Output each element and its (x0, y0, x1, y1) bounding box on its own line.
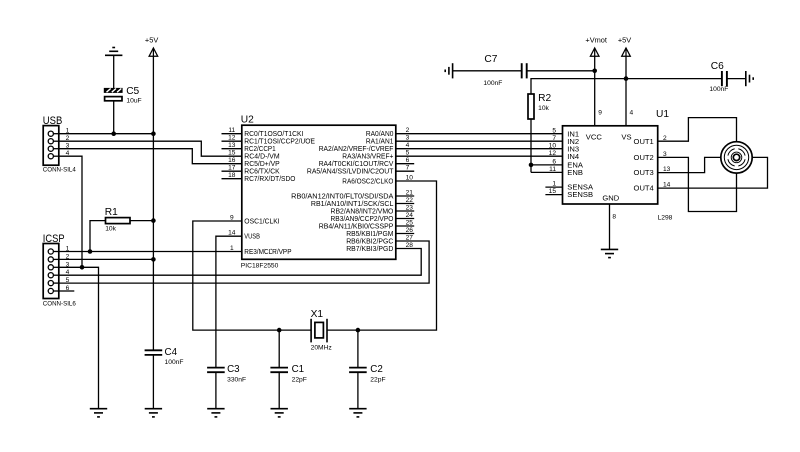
wire C7 to +Vmot rail (527, 70, 595, 72)
svg-text:5: 5 (552, 127, 556, 134)
svg-text:25: 25 (406, 219, 414, 226)
svg-text:IN4: IN4 (567, 152, 579, 161)
svg-text:100nF: 100nF (483, 80, 502, 87)
junction (C1 / X1 left net) (277, 328, 282, 333)
svg-text:RC7/RX/DT/SDO: RC7/RX/DT/SDO (244, 176, 296, 183)
junction (C7 / +Vmot) (592, 69, 597, 74)
svg-text:C2: C2 (370, 364, 383, 375)
ground (C6, rotated right) (746, 71, 753, 86)
wire OUT1 to motor top (658, 118, 737, 142)
svg-text:RA6/OSC2/CLKO: RA6/OSC2/CLKO (342, 178, 394, 185)
svg-text:SENSB: SENSB (567, 190, 593, 199)
pin 16 U2 (RC5/D+/VP) (228, 157, 280, 168)
wire RA0 to IN1 (396, 133, 563, 135)
svg-text:12: 12 (549, 150, 557, 157)
svg-text:18: 18 (228, 172, 236, 179)
crystal X1 (20MHz) (311, 319, 327, 343)
svg-text:RC4/D-/VM: RC4/D-/VM (244, 154, 280, 161)
junction (+5V / ICSP pin2) (151, 257, 156, 262)
pin 1 U1 (SENSA) (545, 181, 594, 192)
wire (C4 to ground) (152, 355, 154, 409)
svg-text:22pF: 22pF (292, 376, 307, 383)
ground (C3) (207, 409, 224, 417)
wire (ground to C5 top plate) (113, 55, 115, 88)
pin 6 U1 (ENA) (552, 159, 584, 170)
wire C3 to ground (215, 372, 217, 409)
svg-text:RB6/KBI2/PGC: RB6/KBI2/PGC (346, 238, 393, 245)
svg-text:GND: GND (602, 193, 619, 202)
junction (USB gnd / ICSP pin3) (80, 265, 85, 270)
junction (+5V / USB pin1) (151, 131, 156, 136)
capacitor C7 (100nF) (522, 63, 527, 78)
svg-text:U1: U1 (656, 109, 669, 120)
svg-text:7: 7 (552, 135, 556, 142)
wire C6 to ground (727, 78, 746, 80)
svg-text:RC0/T1OSO/T1CKI: RC0/T1OSO/T1CKI (244, 131, 303, 138)
wire OUT2 to motor bottom (658, 157, 737, 211)
svg-text:CONN-SIL6: CONN-SIL6 (43, 300, 77, 307)
svg-text:VCC: VCC (586, 133, 603, 142)
svg-text:RC6/TX/CK: RC6/TX/CK (244, 169, 280, 176)
svg-text:100nF: 100nF (709, 86, 728, 93)
svg-text:C3: C3 (227, 364, 240, 375)
pin 11 U1 (ENB) (549, 166, 583, 177)
svg-text:RA0/AN0: RA0/AN0 (366, 131, 394, 138)
pin 17 U2 (RC6/TX/CK) (222, 165, 280, 176)
junction (C5 / +5V rail) (111, 131, 116, 136)
svg-text:OSC1/CLKI: OSC1/CLKI (244, 218, 279, 225)
svg-text:+5V: +5V (145, 35, 158, 44)
wire ICSP pin5 (PGC) to U2 RB6 (59, 241, 429, 283)
wire L298 GND (pin 8) to ground (609, 204, 611, 249)
ground (ICSP pin3) (90, 409, 107, 417)
pin 14 U1 (OUT4) (634, 182, 671, 193)
pin 18 U2 (RC7/RX/DT/SDO) (222, 172, 296, 183)
pin 5 U1 (IN1) (552, 127, 579, 138)
svg-text:22: 22 (406, 197, 414, 204)
pin 3 U2 (RA1/AN1) (366, 135, 410, 146)
pin 26 U2 (RB5/KBI1/PGM) (346, 227, 414, 238)
wire +5V to L298 VS (pin 4) (625, 56, 627, 126)
svg-text:C1: C1 (292, 364, 305, 375)
pin 7 U2 (RA5/AN4/SS/LVDIN/C2OUT) (307, 165, 414, 176)
svg-text:X1: X1 (311, 309, 324, 320)
pin 12 U1 (IN4) (549, 150, 579, 161)
resistor R1 (10k) (106, 218, 131, 224)
svg-text:11: 11 (549, 166, 556, 173)
svg-text:8: 8 (612, 214, 616, 221)
svg-text:RB1/AN10/INT1/SCK/SCL: RB1/AN10/INT1/SCK/SCL (311, 201, 394, 208)
pin 2 U2 (RA0/AN0) (366, 127, 410, 138)
svg-text:4: 4 (630, 109, 634, 116)
pin 3 U1 (OUT2) (634, 151, 667, 162)
pin 12 U2 (RC1/T1OSI/CCP2/UOE) (222, 135, 316, 146)
svg-text:9: 9 (598, 109, 602, 116)
svg-text:13: 13 (228, 142, 236, 149)
wire C1 to ground (278, 372, 280, 409)
wire ICSP pin1 to U2 MCLR (59, 251, 242, 253)
svg-text:OUT1: OUT1 (634, 137, 654, 146)
wire (C5 bottom to USB pin1 rail) (113, 101, 115, 134)
microcontroller U2 (PIC18F2550) (242, 125, 396, 259)
capacitor C6 (100nF) (722, 71, 727, 86)
pin 23 U2 (RB2/AN8/INT2/VMO) (331, 204, 415, 215)
svg-text:PIC18F2550: PIC18F2550 (241, 262, 279, 269)
svg-text:C6: C6 (711, 61, 724, 72)
pin 28 U2 (RB7/KBI3/PGD) (346, 242, 413, 253)
wire USB pin1 to +5V rail (59, 133, 154, 135)
pin 24 U2 (RB3/AN9/CCP2/VPO) (331, 212, 415, 223)
svg-text:RA5/AN4/SS/LVDIN/C2OUT: RA5/AN4/SS/LVDIN/C2OUT (307, 169, 394, 176)
connector USB (CONN-SIL4) (43, 126, 59, 166)
wire R2 bottom to ENA/ENB (530, 119, 532, 172)
svg-text:ENB: ENB (567, 168, 583, 177)
svg-text:C7: C7 (484, 54, 497, 65)
motor driver U1 box (563, 126, 658, 204)
ground (C1) (271, 409, 288, 417)
svg-text:RB5/KBI1/PGM: RB5/KBI1/PGM (346, 231, 393, 238)
svg-text:6: 6 (552, 159, 556, 166)
wire X1 right to U2 OSC2 (327, 181, 437, 330)
wire R1 left lead down to ICSP pin1 (90, 221, 106, 252)
junction (C2 / X1 right net) (356, 328, 361, 333)
svg-text:OUT4: OUT4 (634, 184, 654, 193)
svg-text:RE3/MCLR/VPP: RE3/MCLR/VPP (244, 249, 291, 256)
pin 22 U2 (RB1/AN10/INT1/SCK/SCL) (311, 197, 414, 208)
svg-text:16: 16 (228, 157, 236, 164)
wire RA2 to IN3 (396, 148, 563, 150)
svg-text:RB4/AN11/KBI0/CSSPP: RB4/AN11/KBI0/CSSPP (319, 223, 394, 230)
svg-text:+Vmot: +Vmot (585, 35, 607, 44)
svg-text:100nF: 100nF (165, 359, 184, 366)
svg-text:11: 11 (228, 127, 235, 134)
svg-text:15: 15 (549, 188, 557, 195)
svg-text:10k: 10k (105, 225, 116, 232)
pin 15 U1 (SENSB) (545, 188, 593, 199)
junction (R1 / ICSP pin1) (88, 249, 93, 254)
wire C2 to ground (357, 372, 359, 409)
wire USB pin3 (D+) to U2 RC5 (59, 149, 242, 164)
pin 11 U2 (RC0/T1OSO/T1CKI) (222, 127, 304, 138)
svg-text:RB7/KBI3/PGD: RB7/KBI3/PGD (346, 246, 393, 253)
wire ground to C7 (453, 70, 522, 72)
resistor R2 (10k) (528, 94, 534, 119)
pin 13 U1 (OUT3) (634, 166, 671, 177)
svg-text:RC5/D+/VP: RC5/D+/VP (244, 161, 280, 168)
wire ICSP pin2 to +5V rail (59, 258, 154, 260)
pin 15 U2 (RC4/D-/VM) (228, 150, 280, 161)
wire to ENB (531, 171, 563, 173)
svg-text:R2: R2 (538, 93, 551, 104)
svg-text:10uF: 10uF (126, 98, 141, 105)
junction (+5V / C6 rail) (624, 76, 629, 81)
junction (+5V / R1) (151, 218, 156, 223)
wire U2 VUSB down to C3 (216, 236, 242, 367)
pin 14 U2 (VUSB) (228, 230, 260, 241)
pin 5 U2 (RA3/AN3/VREF+) (342, 150, 409, 161)
svg-text:12: 12 (228, 135, 236, 142)
svg-text:C4: C4 (165, 347, 178, 358)
wire R2 top to +5V rail and C6 (531, 79, 722, 94)
svg-text:10k: 10k (538, 105, 549, 112)
connector ICSP (CONN-SIL6) (43, 244, 59, 299)
pin 7 U1 (IN2) (552, 135, 579, 146)
svg-text:330nF: 330nF (227, 376, 246, 383)
svg-text:RA4/T0CKI/C1OUT/RCV: RA4/T0CKI/C1OUT/RCV (319, 161, 394, 168)
svg-text:10: 10 (406, 174, 414, 181)
wire RA1 to IN2 (396, 140, 563, 142)
svg-text:9: 9 (230, 214, 234, 221)
pin 13 U2 (RC2/CCP1) (222, 142, 276, 153)
power symbol +5V (L298) (618, 35, 631, 56)
svg-text:24: 24 (406, 212, 414, 219)
svg-text:17: 17 (228, 165, 236, 172)
svg-text:7: 7 (406, 165, 410, 172)
svg-text:ICSP: ICSP (43, 233, 65, 245)
svg-text:RB2/AN8/INT2/VMO: RB2/AN8/INT2/VMO (331, 208, 394, 215)
svg-text:RB0/AN12/INT0/FLT0/SDI/SDA: RB0/AN12/INT0/FLT0/SDI/SDA (291, 193, 394, 200)
svg-text:20MHz: 20MHz (311, 344, 333, 351)
power symbol +5V (145, 35, 158, 56)
svg-text:U2: U2 (241, 114, 254, 125)
pin 6 U2 (RA4/T0CKI/C1OUT/RCV) (319, 157, 415, 168)
svg-text:1: 1 (230, 245, 234, 252)
ground (C7, rotated left) (445, 63, 452, 78)
pin 27 U2 (RB6/KBI2/PGC) (346, 234, 413, 245)
ground (C2) (349, 409, 366, 417)
svg-text:1: 1 (552, 181, 556, 188)
svg-text:RA1/AN1: RA1/AN1 (366, 139, 394, 146)
svg-text:R1: R1 (105, 207, 118, 218)
wire +5V vertical rail (152, 56, 154, 350)
svg-text:RC1/T1OSI/CCP2/UOE: RC1/T1OSI/CCP2/UOE (244, 139, 315, 146)
wire OUT3 to motor left (658, 157, 721, 172)
svg-text:VS: VS (621, 133, 631, 142)
svg-text:RB3/AN9/CCP2/VPO: RB3/AN9/CCP2/VPO (331, 216, 394, 223)
svg-text:RC2/CCP1: RC2/CCP1 (244, 146, 275, 153)
wire USB pin2 (D-) to U2 RC4 (59, 141, 242, 156)
motor M1 (stepper) (721, 142, 752, 173)
svg-text:OUT3: OUT3 (634, 168, 654, 177)
wire USB pin4 (GND) down to ICSP pin3 net (59, 156, 82, 267)
junction (R2 / ENA) (529, 163, 534, 168)
capacitor C3 (330nF) (207, 368, 225, 373)
svg-text:6: 6 (406, 157, 410, 164)
ground (below C4) (145, 409, 162, 417)
pin 1 U2 (RE3/MCLR/VPP) (230, 245, 292, 256)
wire OUT4 to motor right (658, 157, 768, 188)
svg-text:RA2/AN2/VREF-/CVREF: RA2/AN2/VREF-/CVREF (319, 146, 394, 153)
svg-text:OUT2: OUT2 (634, 153, 654, 162)
svg-text:21: 21 (406, 189, 414, 196)
power symbol +Vmot (585, 35, 607, 56)
wire RA3 to IN4 (396, 155, 563, 157)
pin 4 U2 (RA2/AN2/VREF-/CVREF) (319, 142, 410, 153)
svg-text:L298: L298 (658, 215, 673, 222)
svg-text:26: 26 (406, 227, 414, 234)
svg-text:22pF: 22pF (370, 376, 385, 383)
wire R1 right lead to +5V rail (130, 220, 153, 222)
pin 21 U2 (RB0/AN12/INT0/FLT0/SDI/SDA) (291, 189, 414, 200)
wire ICSP pin4 (PGD) to U2 RB7 (59, 249, 421, 276)
capacitor C1 (22pF) (278, 330, 280, 368)
svg-text:USB: USB (43, 115, 63, 127)
pin 25 U2 (RB4/AN11/KBI0/CSSPP) (319, 219, 415, 230)
wire to ENA (531, 164, 563, 166)
svg-text:+5V: +5V (618, 35, 631, 44)
ground (inverted, top of C5) (105, 48, 122, 56)
wire ICSP pin6 stub (59, 290, 75, 292)
wire U2 OSC1 down to X1 left (193, 221, 311, 330)
svg-text:15: 15 (228, 150, 236, 157)
pin 9 U2 (OSC1/CLKI) (230, 214, 280, 225)
wire ICSP pin3 to ground (59, 267, 99, 408)
svg-text:RA3/AN3/VREF+: RA3/AN3/VREF+ (342, 154, 393, 161)
svg-text:10: 10 (549, 142, 557, 149)
svg-text:23: 23 (406, 204, 414, 211)
pin 2 U1 (OUT1) (634, 135, 667, 146)
svg-text:27: 27 (406, 234, 414, 241)
svg-text:28: 28 (406, 242, 414, 249)
svg-text:CONN-SIL4: CONN-SIL4 (43, 167, 77, 174)
wire +Vmot to L298 VCC (pin 9) (594, 56, 596, 126)
capacitor C4 (100nF) (145, 350, 163, 355)
svg-text:C5: C5 (126, 86, 139, 97)
ground (L298) (601, 249, 618, 257)
svg-text:VUSB: VUSB (244, 234, 260, 241)
capacitor C5 (polarized 10uF) (104, 88, 123, 101)
pin 10 U2 (RA6/OSC2/CLKO) (342, 174, 413, 185)
capacitor C2 (22pF) (357, 330, 359, 368)
pin 10 U1 (IN3) (549, 142, 579, 153)
